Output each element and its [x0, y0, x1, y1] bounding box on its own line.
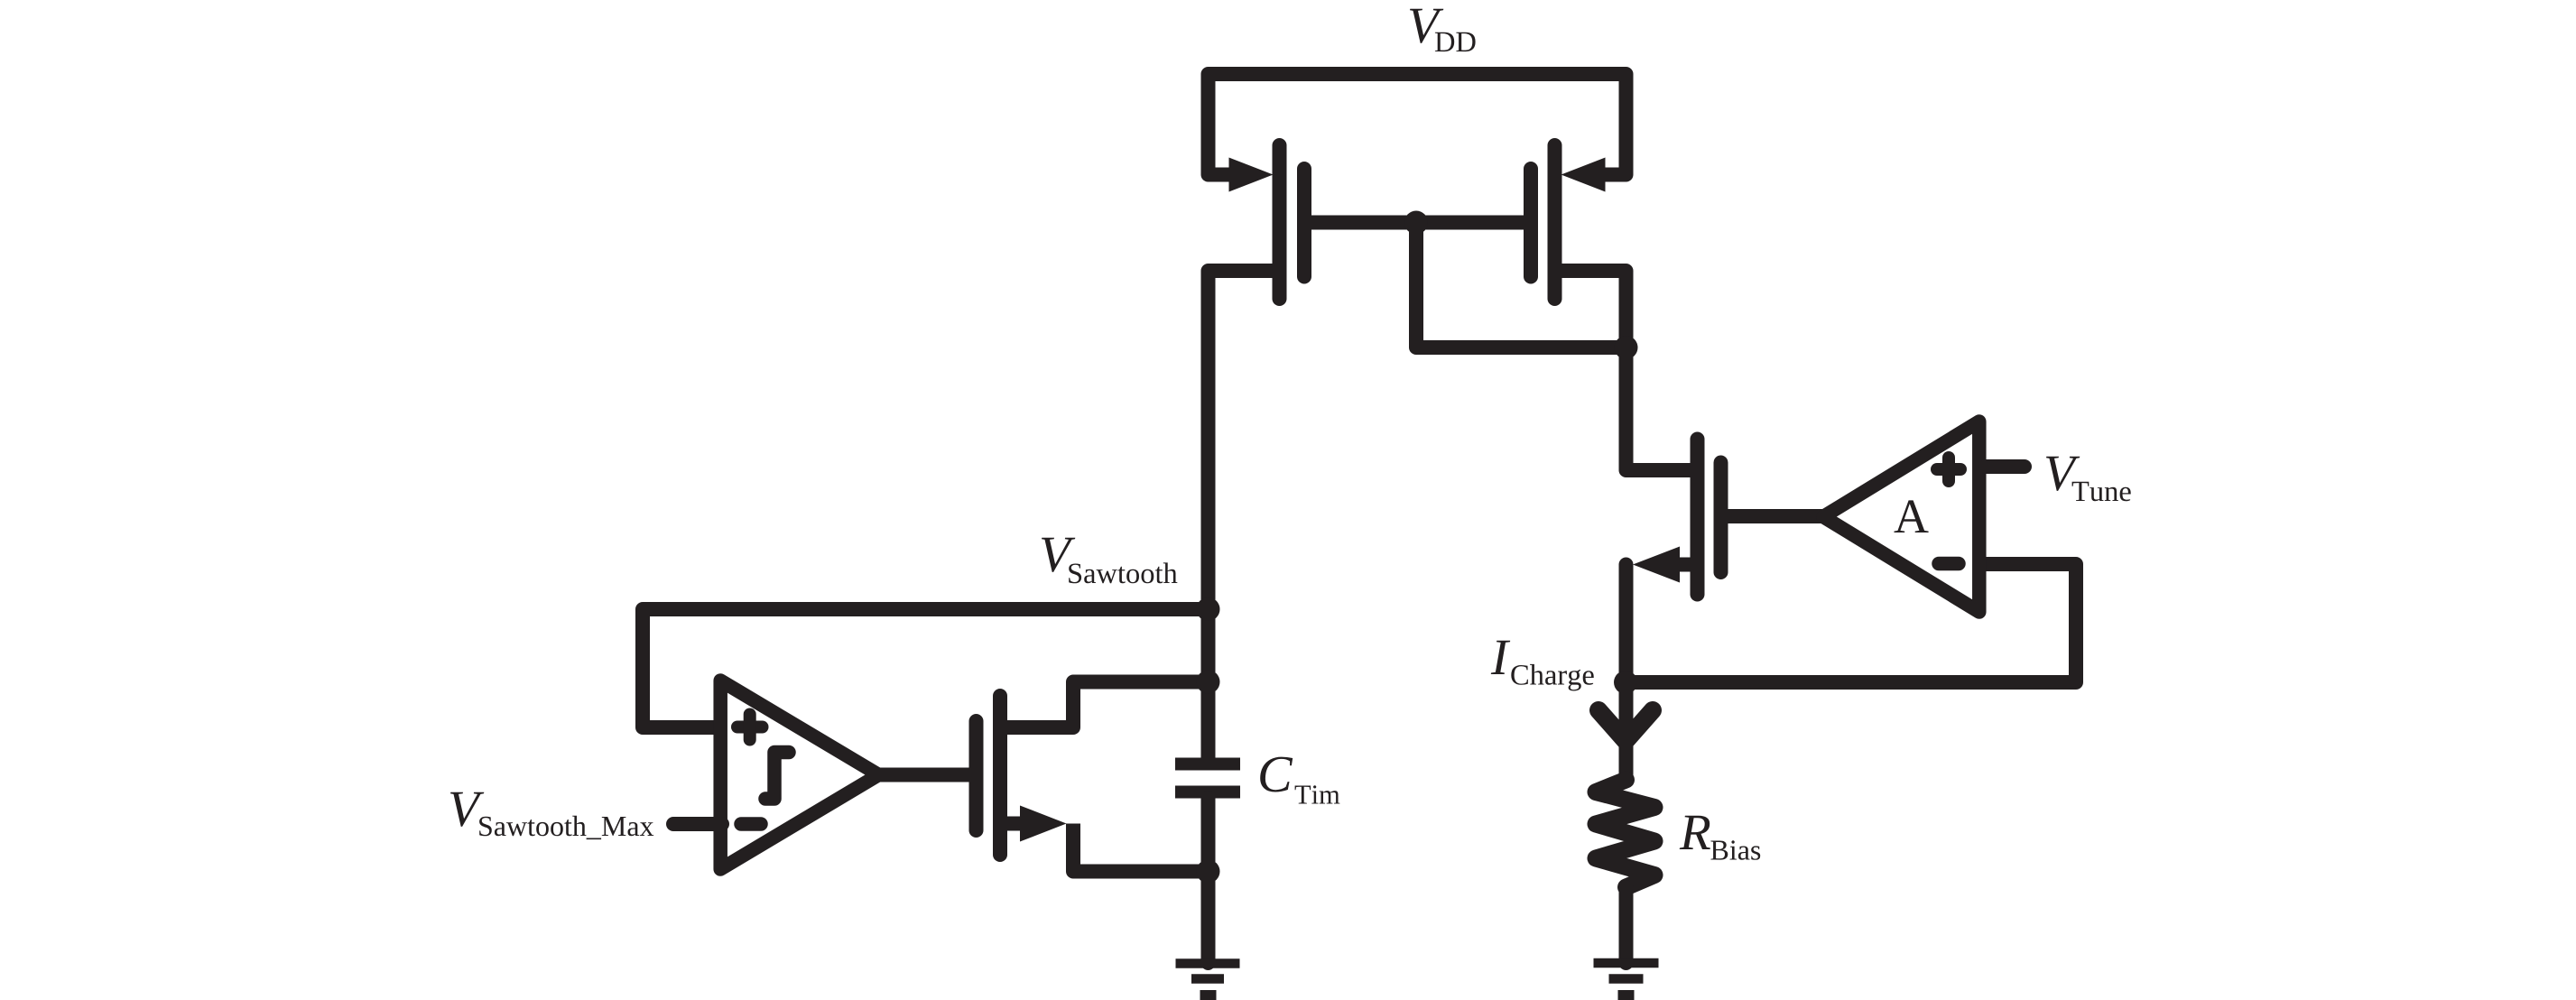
label A: [1895, 500, 1929, 532]
node M3 drain / cap top junction: [1197, 671, 1220, 694]
label V_DD: [1410, 9, 1476, 51]
node V_Sawtooth junction: [1197, 597, 1220, 621]
M2 source arrow: [1561, 158, 1606, 192]
transistor M2 (right PMOS of current mirror): [1531, 145, 1626, 471]
M2 channel bar: [1548, 145, 1562, 299]
U1 plus sign: [737, 715, 763, 740]
U1 triangle body: [720, 681, 878, 869]
M1 gate bar: [1297, 169, 1311, 277]
node M2 drain junction: [1615, 336, 1638, 359]
node mirror gate junction: [1404, 211, 1428, 235]
transistor M4 (charge NMOS, op-amp controlled): [1626, 347, 1825, 682]
wire VDD rail: [1209, 74, 1626, 175]
resistor R_Bias: [1596, 780, 1654, 887]
wire U1 output lead: [879, 768, 971, 782]
wire diode connection from gate node to M2 drain: [1416, 223, 1626, 348]
M1 channel bar: [1273, 145, 1287, 299]
M3 gate bar: [969, 721, 984, 830]
C_Tim top plate: [1175, 758, 1240, 771]
M1 source arrow: [1229, 158, 1274, 192]
node I_Charge junction: [1614, 671, 1637, 694]
wire cap bottom to ground node: [1201, 799, 1216, 964]
transistor M1 (left PMOS of current mirror): [1209, 145, 1305, 758]
node M3 source / cap bottom junction: [1197, 860, 1220, 884]
M4 channel bar: [1691, 440, 1705, 595]
label V_Sawtooth_Max: [450, 792, 653, 839]
M4 gate lead: [1727, 509, 1824, 523]
M2 gate bar: [1524, 169, 1538, 277]
ground (left): [1176, 964, 1240, 995]
wire gate tie between M1 and M2: [1304, 216, 1531, 230]
label C_Tim: [1260, 757, 1339, 804]
label V_Sawtooth: [1042, 538, 1177, 584]
wire V_Sawtooth_Max input lead: [673, 817, 722, 831]
M2 drain lead: [1560, 271, 1626, 471]
M3 source lead stub: [1005, 817, 1022, 831]
op-amp U1 (comparator with hysteresis): [720, 681, 878, 869]
M1 drain lead and V_Sawtooth net vertical wire: [1209, 271, 1275, 758]
label R_Bias: [1680, 816, 1761, 860]
label I_Charge: [1491, 641, 1594, 691]
wire V_Tune input lead: [1986, 459, 2025, 474]
ground (right): [1594, 963, 1659, 995]
M3 source arrow: [1020, 806, 1067, 842]
M4 source wire down: [1619, 565, 1634, 683]
capacitor C_Tim: [1175, 764, 1240, 792]
wire I_Charge node to resistor: [1619, 682, 1634, 781]
M4 source arrow: [1633, 547, 1680, 583]
U2 plus sign: [1937, 458, 1960, 481]
U1 hysteresis symbol: [765, 753, 789, 800]
M3 channel bar: [993, 696, 1007, 855]
wire feedback from V_Sawtooth to comparator plus input: [643, 609, 1209, 727]
U2 triangle body: [1823, 421, 1979, 612]
M3 source wire to cap bottom: [1073, 824, 1209, 872]
label V_Tune: [2046, 457, 2131, 502]
transistor M3 (discharge NMOS): [977, 682, 1209, 872]
M3 drain lead: [1005, 682, 1209, 728]
op-amp U2 (amplifier A): [1823, 421, 1979, 612]
M4 drain lead: [1626, 347, 1692, 470]
U1 minus sign: [741, 817, 761, 831]
wire resistor to ground: [1619, 887, 1634, 963]
M4 source lead stub: [1679, 558, 1691, 572]
M4 gate bar: [1714, 463, 1728, 573]
wire op-amp feedback (I_Charge node to minus input): [1626, 564, 2077, 682]
U2 minus sign: [1939, 557, 1959, 571]
current arrow I_Charge (chevron): [1598, 710, 1653, 741]
C_Tim bottom plate: [1175, 786, 1240, 799]
